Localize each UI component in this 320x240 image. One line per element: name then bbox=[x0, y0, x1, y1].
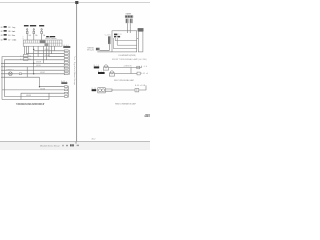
svg-text:0.85GL: 0.85GL bbox=[36, 65, 41, 67]
svg-text:REAR COMBINATION LAMP: REAR COMBINATION LAMP bbox=[115, 103, 137, 106]
connector legend table row 2 bbox=[0, 30, 15, 33]
lamp row C twin bulb bbox=[98, 88, 105, 93]
hazard switch box A bbox=[23, 54, 28, 60]
harness connector strip label bbox=[46, 36, 57, 40]
svg-text:C-212 x: C-212 x bbox=[105, 35, 112, 37]
fuse F3 bbox=[41, 29, 43, 40]
svg-text:2-GB 0.85: 2-GB 0.85 bbox=[124, 66, 132, 68]
svg-text:SW C-210: SW C-210 bbox=[87, 50, 94, 52]
inline connector on lamp wire bbox=[19, 73, 21, 75]
wire drop short x38 bbox=[37, 46, 39, 56]
wire 4 left segment bbox=[4, 60, 64, 97]
connector A-05 pin column bbox=[65, 86, 69, 98]
wire drop strip to junction bus bbox=[33, 46, 35, 74]
svg-text:0.85GW: 0.85GW bbox=[45, 49, 51, 51]
wire 9 row through lamp bbox=[1, 73, 64, 75]
svg-text:B-02 x4: B-02 x4 bbox=[141, 73, 148, 75]
svg-text:C-01: C-01 bbox=[0, 27, 2, 29]
connector legend table row 3 bbox=[0, 34, 15, 37]
svg-text:OFF: OFF bbox=[29, 56, 32, 58]
wire switch box bottom stub bbox=[97, 51, 112, 53]
footer dark dot 1 bbox=[70, 144, 71, 146]
svg-text:TURN-SIGNAL AND HAZARD CIRCUIT: TURN-SIGNAL AND HAZARD CIRCUIT bbox=[16, 102, 45, 106]
footer speck 1 bbox=[62, 145, 63, 147]
svg-text:C-04: C-04 bbox=[0, 39, 2, 41]
footer margin strip bbox=[0, 142, 150, 150]
wire flasher to switch box 2 bbox=[129, 23, 131, 33]
junction dot 4 bbox=[39, 86, 40, 87]
wire drop strip to wire 5 bbox=[43, 46, 45, 63]
svg-text:SIDE TURN-SIGNAL LAMP: SIDE TURN-SIGNAL LAMP bbox=[114, 79, 135, 82]
wire row A drop to row B bbox=[130, 68, 132, 74]
flasher unit body right bbox=[130, 19, 133, 24]
svg-text:COLUMN SWITCH (TURN): COLUMN SWITCH (TURN) bbox=[118, 55, 136, 57]
svg-text:C-02: C-02 bbox=[0, 31, 2, 33]
junction block label bar 1 bbox=[24, 25, 29, 26]
switch contact mark row 2 bbox=[114, 36, 116, 38]
wire box to connector B-01 bbox=[137, 38, 139, 40]
wire rear 4 bbox=[4, 96, 64, 98]
connector A-04 pin column bbox=[64, 50, 69, 75]
connector A-05 label bbox=[61, 80, 67, 84]
connector B-01 body bbox=[138, 31, 143, 52]
row A inline connector bbox=[137, 66, 140, 69]
wire row C lower bbox=[105, 90, 112, 91]
svg-text:Combination: Combination bbox=[12, 38, 16, 41]
svg-text:0.85GW: 0.85GW bbox=[26, 95, 32, 97]
svg-text:TURN IND C: TURN IND C bbox=[6, 70, 15, 72]
switch box inner connector bbox=[108, 36, 111, 44]
fuse F1 bbox=[26, 29, 28, 40]
junction block label bar 3 bbox=[39, 25, 44, 26]
junction dot 1 bbox=[33, 49, 34, 50]
connector A-04 label bbox=[63, 44, 70, 48]
wire 5 row bbox=[1, 62, 64, 64]
svg-text:Turn - Signal and Hazard Lamps: Turn - Signal and Hazard Lamps bbox=[73, 56, 76, 85]
bottom rule bbox=[0, 141, 150, 143]
footer dark dot 2 bbox=[72, 144, 73, 146]
center page divider bbox=[76, 2, 78, 142]
junction dot 3 bbox=[33, 73, 34, 74]
wire 10 row bbox=[1, 76, 40, 78]
strip dark pin cells bbox=[40, 40, 46, 43]
divider top tick bbox=[75, 1, 78, 4]
svg-text:B-03 x4 GB: B-03 x4 GB bbox=[135, 85, 146, 87]
indicator lamp L1 bbox=[9, 72, 13, 76]
lamp row B bulb bbox=[109, 71, 114, 76]
svg-text:FLASHER: FLASHER bbox=[126, 13, 132, 16]
row B connector bbox=[137, 72, 140, 75]
row C connector bbox=[135, 89, 139, 92]
wire 6 row bbox=[1, 66, 64, 68]
hazard switch dashes bbox=[20, 55, 23, 57]
svg-text:C-03: C-03 bbox=[0, 35, 2, 37]
junction dot 2 bbox=[33, 63, 34, 64]
svg-text:A-06: A-06 bbox=[141, 65, 147, 68]
column switch box bbox=[112, 31, 137, 52]
wire drop strip to hazard cluster c bbox=[27, 46, 29, 54]
footer speck 2 bbox=[66, 145, 67, 147]
switch inner wires bbox=[114, 38, 137, 49]
lamp row A bulb bbox=[103, 65, 108, 70]
svg-text:FRONT TURN-SIGNAL LAMP (LH / R: FRONT TURN-SIGNAL LAMP (LH / RH) bbox=[112, 58, 147, 61]
fuse F2 bbox=[33, 29, 35, 40]
wire row C upper bbox=[105, 89, 135, 90]
wire rear 1 bbox=[40, 86, 65, 88]
switch left small box bbox=[96, 48, 100, 51]
wire rear 2 bbox=[2, 89, 64, 91]
wire 3 left segment to edge bbox=[2, 57, 64, 100]
svg-text:Flasher: Flasher bbox=[12, 35, 16, 37]
svg-text:Turn sig: Turn sig bbox=[12, 27, 15, 29]
wire drop strip to hazard cluster b bbox=[25, 46, 27, 54]
wire row A bbox=[109, 67, 142, 69]
wire drop strip to wire 2 bbox=[52, 46, 65, 54]
connector legend table row 1 bbox=[0, 26, 15, 29]
wire 7 row bbox=[1, 69, 64, 71]
switch contact mark row 1 bbox=[114, 34, 117, 36]
page background bbox=[0, 0, 150, 150]
divider bottom tick bbox=[75, 142, 77, 144]
svg-text:0.85GB: 0.85GB bbox=[45, 55, 50, 57]
connector legend table row 4 bbox=[0, 38, 16, 41]
svg-text:49B: 49B bbox=[143, 113, 150, 118]
svg-text:0.85GY: 0.85GY bbox=[40, 72, 45, 74]
top page border bbox=[0, 1, 150, 3]
wire drop strip to wire 1 bbox=[54, 46, 64, 51]
wire drop strip to wire 4 bbox=[45, 46, 47, 60]
wire 6 drop bbox=[26, 67, 28, 77]
dashed drop left of strip bbox=[22, 36, 24, 40]
wire 10 drop bbox=[39, 77, 41, 87]
row C tail wire bbox=[139, 85, 146, 90]
flasher unit body left bbox=[126, 19, 129, 24]
wire flasher to switch box 1 bbox=[126, 23, 128, 33]
wire rear 3 bbox=[21, 93, 64, 99]
wire drop strip to hazard cluster a bbox=[23, 46, 25, 54]
instrument panel connector strip bbox=[23, 40, 62, 46]
wire hatch bar drop bbox=[100, 44, 110, 50]
footer speck 3 bbox=[77, 145, 79, 146]
wire drop strip to wire 3 bbox=[49, 46, 64, 56]
flasher unit connector bar bbox=[125, 15, 133, 17]
svg-text:Mitsubishi Service Manual: Mitsubishi Service Manual bbox=[40, 144, 60, 147]
wire row B bbox=[115, 73, 137, 75]
svg-text:0.85GB: 0.85GB bbox=[40, 88, 45, 90]
junction block label bar 2 bbox=[30, 25, 36, 26]
wire rear bottom run bbox=[2, 93, 49, 99]
connector B-01 cap bbox=[138, 28, 144, 31]
